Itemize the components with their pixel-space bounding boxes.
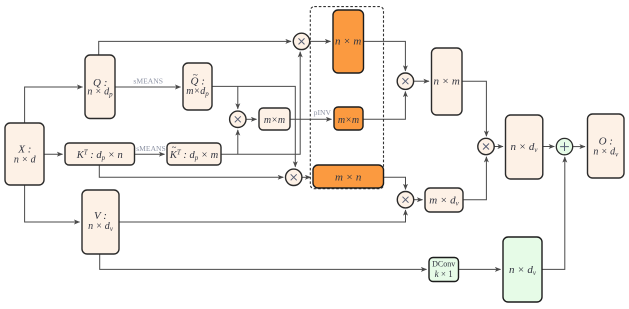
dashed container [310,7,383,189]
box mxm orange [334,107,363,130]
wire Qtilde to mult3 down [212,86,295,166]
wire pinv mxm to mult4 up [363,92,405,120]
wire KT bottom to mult3 [99,165,283,177]
wire plus to O [573,146,585,148]
wire X bottom to V [25,185,80,222]
svg-text:n × m: n × m [434,75,460,87]
svg-text:sMEANS: sMEANS [133,76,163,85]
svg-text:pINV: pINV [314,108,332,117]
wire V bottom to DConv [100,254,427,269]
wire Q top to mult1 [99,41,291,55]
wire V right to mult5 up [119,210,406,222]
svg-text:n × m: n × m [335,35,361,47]
mult circle 2 [230,111,246,127]
wire X right to KT [44,153,63,155]
box Qtilde [183,63,212,110]
wire branch Qtilde to mult2 [237,86,239,108]
box ndv green [503,237,542,302]
wire mult5 to mxdv [414,199,423,201]
box mxm small [259,108,290,130]
wire mxdv to mult6 up [463,157,486,200]
wire KT to Ktilde [135,153,165,155]
wire Ktilde to mult1 up [221,52,300,154]
mult circle 1 [293,33,309,49]
wire green ndv to plus up [542,157,565,269]
svg-text:KT : dp × n: KT : dp × n [76,149,123,163]
svg-text:k × 1: k × 1 [435,269,453,279]
svg-text:X :: X : [17,143,31,155]
wire X top to Q [25,87,83,123]
box O [588,114,625,178]
svg-text:DConv: DConv [432,260,455,269]
svg-text:m×m: m×m [338,115,359,126]
box Q [85,55,115,119]
svg-text:O :: O : [599,135,613,147]
box Ktilde [167,143,221,165]
svg-text:m × n: m × n [335,171,362,183]
box mxdv [425,188,463,212]
wire mult1 to nxm orange [310,40,331,42]
wire mult4 to nxm peach [414,80,429,82]
wire nxm orange to mult4 down [364,41,406,71]
svg-text:m × dv: m × dv [429,195,459,208]
wire ndv to plus [543,146,555,148]
box mxn orange [313,165,384,188]
box nxm orange [333,10,364,73]
wire nxm peach to mult6 down [462,81,486,136]
wire mxm to pinv mxm [290,118,332,120]
wire Q to Qtilde [115,86,181,88]
svg-text:n × dv: n × dv [509,264,537,277]
box nxm peach [432,48,463,115]
box V [82,190,119,254]
wire DConv to green ndv [459,268,501,270]
svg-text:m×m: m×m [264,115,285,126]
svg-text:sMEANS: sMEANS [136,144,166,153]
mult circle 5 [397,192,413,208]
mult circle 6 [478,138,494,154]
mult circle 3 [286,169,302,185]
wire mult6 to ndv [494,146,503,148]
svg-text:KT : dp × m: KT : dp × m [169,149,219,163]
box KT [65,143,135,165]
wire mult3 to mxn orange [302,176,310,178]
wire mxn orange to mult5 down [384,177,406,189]
box ndv peach [506,115,543,179]
svg-text:n × d: n × d [14,155,37,166]
plus circle [556,138,572,154]
box X [5,123,44,185]
wire mult2 to mxm [246,118,257,120]
svg-text:n × dv: n × dv [510,141,538,154]
wire branch Ktilde to mult2 [237,130,239,154]
box DConv [429,258,459,282]
mult circle 4 [397,73,413,89]
